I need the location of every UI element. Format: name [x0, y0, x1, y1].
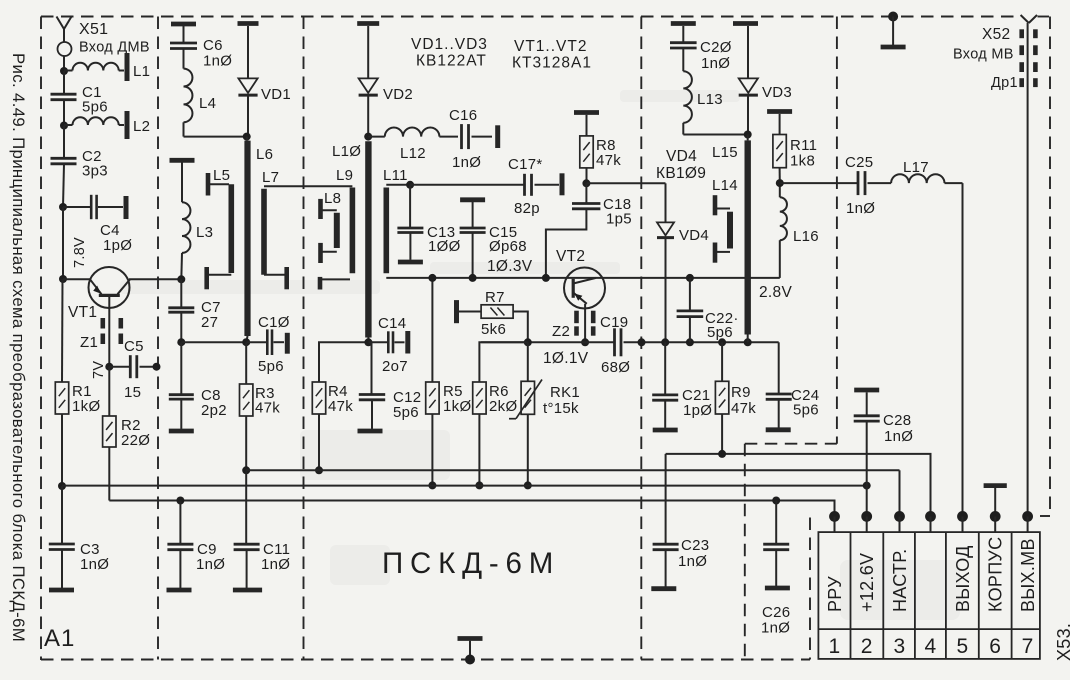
node C22 top: [686, 274, 694, 282]
wire VT1 base down: [108, 295, 110, 366]
svg-text:КОРПУС: КОРПУС: [986, 537, 1006, 612]
svg-text:Др1: Др1: [991, 75, 1018, 91]
svg-text:+12.6V: +12.6V: [857, 553, 877, 612]
capacitor C11: [234, 470, 260, 588]
svg-text:L12: L12: [400, 145, 426, 162]
line inductor L7: [261, 189, 267, 275]
svg-text:L11: L11: [383, 167, 408, 184]
svg-text:1p5: 1p5: [606, 211, 632, 228]
type label VD1..VD3 КВ122АТ: [411, 36, 488, 70]
chassis stub over L3: [170, 158, 195, 163]
wire stub to L9 foot: [320, 278, 350, 280]
node VD4 / C21: [661, 338, 669, 346]
node R9 top: [718, 338, 726, 346]
chassis stub over C6: [171, 22, 196, 27]
svg-text:2p2: 2p2: [201, 402, 227, 419]
wire L5 top tap: [208, 183, 229, 185]
capacitor C5: [109, 355, 156, 378]
pin 6 of X53: [986, 511, 1006, 658]
ground of C23: [651, 586, 676, 591]
line inductor L9: [350, 188, 356, 274]
node C9 top: [176, 497, 184, 505]
svg-text:R11: R11: [790, 137, 817, 154]
diode VD3: [739, 26, 758, 135]
svg-text:C19: C19: [600, 314, 628, 331]
svg-text:L7: L7: [262, 169, 279, 186]
line inductor L5: [229, 184, 235, 273]
ferrite bead Z1: [103, 318, 121, 344]
svg-text:5p6: 5p6: [258, 358, 284, 375]
ground at top border: [881, 12, 906, 48]
svg-text:2.8V: 2.8V: [759, 284, 792, 301]
capacitor C9: [167, 501, 193, 589]
section divider (dashed) 1: [157, 17, 159, 660]
svg-text:1nØ: 1nØ: [452, 154, 481, 171]
svg-text:VD2: VD2: [383, 86, 413, 103]
resistor R11: [773, 114, 786, 183]
thick plate bar of C14: [405, 331, 410, 354]
ground of C11: [233, 588, 262, 593]
node at C4: [59, 203, 67, 211]
pin 4 of X53: [925, 511, 937, 658]
svg-text:1nØ: 1nØ: [678, 553, 707, 570]
diode VD4: [657, 222, 674, 342]
node C7 / C8 / wire to L6 foot: [177, 338, 185, 346]
svg-text:VD3: VD3: [762, 84, 792, 101]
wire L7 bottom tap: [264, 274, 286, 276]
capacitor C12: [359, 342, 385, 429]
node R3 / tuning bus: [242, 466, 250, 474]
node C15 / base wire: [469, 274, 477, 282]
stub bar of L14 top: [713, 195, 718, 215]
svg-text:C17*: C17*: [508, 156, 543, 173]
resistor R4: [312, 342, 368, 470]
node R1 / +12V bus: [58, 482, 66, 490]
capacitor C20: [670, 26, 697, 71]
node R6 / +12V bus: [475, 481, 483, 489]
svg-text:5p6: 5p6: [707, 324, 733, 341]
svg-text:RK1: RK1: [550, 384, 580, 401]
chassis stub over C20: [671, 21, 696, 26]
capacitor C17: [523, 174, 526, 196]
svg-text:7.8V: 7.8V: [72, 237, 88, 268]
node base / C5 / R2: [105, 363, 113, 371]
capacitor C7: [168, 279, 194, 342]
capacitor C19: [615, 328, 779, 356]
short-circuit bar of L2: [125, 111, 130, 139]
inductor L17: [891, 174, 962, 183]
diode VD1: [238, 26, 257, 137]
wire C13 node to C17: [410, 184, 524, 186]
thick plate bar of C17: [560, 173, 565, 195]
svg-text:X53.: X53.: [1054, 623, 1070, 661]
svg-text:1pØ: 1pØ: [683, 402, 712, 419]
capacitor C26: [763, 501, 789, 587]
section divider (dashed) 4 stepped: [745, 17, 837, 660]
svg-text:3p3: 3p3: [82, 163, 108, 180]
node VT1 emitter wire: [59, 275, 67, 283]
node L11 / C13 / C17 wire: [406, 181, 414, 189]
ground of C3: [49, 588, 74, 593]
svg-text:Øp68: Øp68: [489, 238, 527, 255]
output line wire: [666, 454, 931, 517]
svg-text:2kØ: 2kØ: [489, 398, 517, 415]
ferrite bead Z2: [577, 311, 594, 336]
capacitor C2: [51, 126, 77, 208]
svg-text:L16: L16: [793, 228, 819, 245]
node L10 foot / C12 / C14: [364, 338, 372, 346]
node VD3 / L13 / L15: [744, 131, 752, 139]
svg-text:R9: R9: [731, 384, 751, 401]
svg-text:4: 4: [925, 635, 937, 658]
svg-text:Z2: Z2: [552, 323, 570, 340]
svg-text:1nØ: 1nØ: [846, 200, 875, 217]
chassis stub over C28: [854, 388, 879, 393]
resistor R5: [426, 278, 439, 486]
svg-text:L15: L15: [712, 144, 738, 161]
resistor R2: [103, 367, 116, 501]
svg-text:15: 15: [124, 384, 141, 401]
capacitor C6: [170, 26, 197, 69]
chassis stub over VD1: [238, 21, 259, 26]
chassis stub over VD2: [357, 21, 379, 26]
wire X51 to L1 node: [63, 56, 65, 71]
stub bar of L8 bottom: [318, 243, 323, 263]
svg-text:L3: L3: [196, 224, 213, 241]
inductor L2: [64, 117, 124, 125]
svg-text:L1: L1: [133, 63, 150, 80]
svg-text:47k: 47k: [328, 398, 353, 415]
resistor R6: [473, 382, 486, 485]
svg-text:2o7: 2o7: [382, 358, 408, 375]
+12.6V bus: [62, 485, 867, 487]
svg-text:ВЫХ.МВ: ВЫХ.МВ: [1018, 538, 1038, 612]
svg-text:1: 1: [829, 635, 841, 658]
svg-text:22Ø: 22Ø: [121, 432, 150, 449]
svg-text:VD1: VD1: [261, 86, 291, 103]
inductor L12: [368, 128, 458, 137]
wire L17 to pin 5: [962, 183, 964, 516]
svg-text:L5: L5: [213, 167, 230, 184]
pin 2 of X53: [857, 511, 877, 658]
svg-text:1nØ: 1nØ: [196, 556, 225, 573]
chassis stub over pin 6: [984, 483, 1007, 488]
node VT2 emitter: [581, 338, 589, 346]
svg-text:1kØ: 1kØ: [72, 398, 100, 415]
capacitor C28: [854, 392, 880, 516]
resistor R1: [55, 279, 68, 486]
svg-text:VT2: VT2: [556, 248, 585, 265]
svg-text:L14: L14: [712, 177, 738, 194]
capacitor C18: [546, 183, 601, 278]
svg-text:Вход ДМВ: Вход ДМВ: [79, 40, 150, 56]
svg-text:1kØ: 1kØ: [443, 398, 471, 415]
wire R8 node to VD4: [586, 183, 665, 222]
type label VT1..VT2 КТ3128А1: [512, 38, 592, 72]
svg-text:C25: C25: [845, 154, 873, 171]
node R5 / +12V bus: [428, 481, 436, 489]
capacitor C14: [368, 331, 404, 353]
wire down to VT1 emitter node: [62, 207, 64, 279]
svg-text:РРУ: РРУ: [825, 576, 845, 612]
stub bar of L7 bottom: [284, 267, 289, 289]
svg-text:1ØØ: 1ØØ: [428, 238, 461, 255]
wire L14 bottom tap: [715, 251, 730, 253]
line inductor L10: [365, 141, 371, 337]
svg-text:L13: L13: [697, 91, 723, 108]
node VD1 / L4 / L6: [243, 133, 251, 141]
svg-text:R7: R7: [485, 289, 505, 306]
wire L7 top to L9 top: [264, 185, 352, 187]
svg-text:1nØ: 1nØ: [761, 620, 790, 637]
svg-text:1Ø.3V: 1Ø.3V: [487, 258, 533, 275]
ground of C8: [169, 429, 194, 434]
svg-text:7V: 7V: [91, 361, 107, 379]
pin 1 of X53: [825, 511, 845, 658]
thick plate bar of C4: [124, 196, 129, 219]
svg-text:КВ1Ø9: КВ1Ø9: [656, 165, 706, 182]
svg-text:47k: 47k: [731, 400, 756, 417]
ground of C24: [766, 427, 791, 432]
type label VD4 КВ109: [656, 148, 706, 182]
svg-text:VT1..VT2: VT1..VT2: [514, 38, 587, 55]
svg-text:C5: C5: [124, 338, 144, 355]
line inductor L14: [727, 212, 733, 249]
thick plate bar of C10: [285, 333, 290, 354]
transistor VT1: [63, 267, 181, 308]
stub bar of L8 top: [318, 199, 323, 219]
svg-text:82p: 82p: [514, 200, 540, 217]
chassis stub over VD3: [733, 21, 758, 26]
svg-text:1nØ: 1nØ: [261, 556, 290, 573]
antenna symbol at X52: [1021, 15, 1037, 23]
svg-text:A1: A1: [44, 625, 75, 652]
wire L11 top to C13 node: [386, 184, 410, 186]
stub bar of L5 bottom: [204, 267, 209, 289]
svg-text:КТ3128А1: КТ3128А1: [512, 55, 592, 72]
inductor L13: [683, 71, 747, 134]
capacitor C13: [397, 185, 423, 260]
node R9 / output line: [718, 450, 726, 458]
svg-text:L2: L2: [133, 118, 150, 135]
capacitor C25: [780, 171, 891, 195]
RRU bus: [109, 501, 834, 517]
resistor R3: [240, 342, 253, 470]
node on divider at C19 wire: [638, 338, 646, 346]
diode VD2: [359, 26, 378, 137]
resistor R7: [457, 300, 528, 342]
svg-text:47k: 47k: [255, 400, 280, 417]
svg-text:1Ø.1V: 1Ø.1V: [543, 350, 589, 367]
svg-text:3: 3: [894, 635, 906, 658]
node C28 / pin2: [863, 482, 871, 490]
node L15 foot: [744, 338, 752, 346]
node VD2 / L10 / L12: [364, 133, 372, 141]
svg-text:1pØ: 1pØ: [103, 237, 132, 254]
svg-text:C16: C16: [449, 107, 477, 124]
wire node to L10 / C14 node: [367, 338, 369, 343]
svg-text:X52: X52: [982, 26, 1010, 43]
wire L8 bottom tap: [321, 251, 337, 253]
capacitor C8: [169, 342, 194, 429]
line inductor L11: [383, 188, 389, 274]
wire R6 top elbow: [479, 342, 527, 382]
node C5 right: [153, 363, 161, 371]
svg-text:47k: 47k: [596, 152, 621, 169]
svg-text:L4: L4: [199, 95, 216, 112]
stub bar of L5 top: [206, 173, 211, 196]
wire L11 foot to VT2 base: [386, 277, 612, 279]
stub bar of L14 bottom: [713, 243, 718, 263]
node R8 / C18 / VD4 wire: [582, 179, 590, 187]
ground of C21: [653, 428, 678, 433]
svg-text:2: 2: [861, 635, 873, 658]
short-circuit bar of L1: [125, 53, 130, 81]
node RK1 / +12V bus: [524, 481, 532, 489]
capacitor C16: [462, 124, 493, 149]
wire L14 top tap: [715, 208, 730, 210]
capacitor C3: [49, 486, 75, 588]
svg-text:C28: C28: [883, 412, 911, 429]
chassis stub over C15: [460, 197, 485, 202]
ground of C9: [167, 588, 192, 593]
svg-text:5p6: 5p6: [82, 99, 108, 116]
section divider (dashed) 2: [303, 17, 305, 660]
svg-text:1nØ: 1nØ: [80, 556, 109, 573]
wire node to L6 foot: [181, 341, 246, 343]
capacitor C22: [677, 278, 704, 342]
ground at bottom border: [458, 639, 483, 665]
svg-text:ВЫХОД: ВЫХОД: [953, 545, 973, 612]
svg-text:VD1..VD3: VD1..VD3: [411, 36, 488, 53]
resistor R8: [580, 115, 593, 184]
svg-text:5k6: 5k6: [481, 321, 506, 338]
ground of C13: [398, 260, 423, 265]
capacitor C21: [652, 342, 678, 428]
svg-text:C14: C14: [378, 315, 406, 332]
wire pin 6 stub: [994, 488, 996, 517]
svg-text:L8: L8: [324, 190, 341, 207]
node C26 top: [772, 497, 780, 505]
svg-text:L1Ø: L1Ø: [332, 143, 361, 160]
node at L1 tap: [60, 67, 68, 75]
svg-text:X51: X51: [79, 21, 108, 38]
svg-text:Вход МВ: Вход МВ: [953, 47, 1014, 63]
wire C17 to stub: [535, 184, 560, 186]
wire L8 top tap: [321, 209, 337, 211]
wire VT2 collector to L16: [612, 240, 780, 278]
svg-text:C1Ø: C1Ø: [258, 314, 290, 331]
svg-text:5: 5: [957, 635, 969, 658]
ground of C26: [765, 586, 790, 591]
thermistor RK1: [509, 342, 542, 485]
svg-text:27: 27: [201, 314, 218, 331]
node C22 bottom: [686, 338, 694, 346]
svg-text:C26: C26: [762, 604, 790, 621]
line inductor L15: [745, 135, 751, 343]
antenna symbol at X51: [57, 17, 72, 43]
svg-text:5p6: 5p6: [393, 404, 419, 421]
svg-text:L9: L9: [336, 167, 353, 184]
node L6 foot / C10 / R3: [242, 338, 250, 346]
svg-text:C2Ø: C2Ø: [700, 39, 732, 56]
svg-text:C6: C6: [203, 37, 223, 54]
tuning voltage bus: [246, 470, 900, 516]
svg-text:68Ø: 68Ø: [601, 359, 630, 376]
pin 3 of X53: [890, 511, 910, 658]
wire X52 to pin 7: [1027, 23, 1029, 516]
node R4 / tuning bus: [315, 466, 323, 474]
stub bar at L9 foot: [318, 277, 323, 290]
svg-text:1nØ: 1nØ: [884, 428, 913, 445]
line inductor L6: [246, 137, 247, 343]
pin 5 of X53: [953, 511, 973, 658]
node C18 / base wire: [542, 274, 550, 282]
resistor R9: [715, 342, 728, 454]
connector area dashed border: [809, 518, 811, 660]
svg-text:t°15k: t°15k: [543, 400, 579, 417]
node R11 / L16 / C25: [776, 179, 784, 187]
svg-text:Рис. 4.49. Принципиальная схем: Рис. 4.49. Принципиальная схема преобраз…: [9, 53, 28, 642]
svg-text:КВ122АТ: КВ122АТ: [416, 53, 487, 70]
ground of C12: [358, 429, 383, 434]
transistor VT2: [564, 268, 605, 343]
node R7 / RK1 / emitter wire: [524, 338, 532, 346]
inductor L3: [181, 163, 190, 280]
svg-text:5p6: 5p6: [793, 402, 819, 419]
svg-text:НАСТР.: НАСТР.: [890, 549, 910, 612]
thick plate bar of C16: [495, 125, 500, 148]
svg-text:ПСКД-6М: ПСКД-6М: [382, 547, 560, 580]
svg-text:Z1: Z1: [80, 334, 98, 351]
capacitor C23: [653, 454, 679, 587]
pin 7 of X53: [1018, 511, 1038, 658]
section divider (dashed) 3: [640, 17, 642, 660]
capacitor C24: [766, 342, 792, 428]
svg-text:VT1: VT1: [68, 304, 97, 321]
inductor L4: [184, 69, 247, 137]
svg-text:1nØ: 1nØ: [701, 55, 730, 72]
capacitor C4: [63, 195, 123, 219]
capacitor C1: [51, 71, 77, 126]
inductor L16: [780, 183, 787, 240]
connector X53 table: [818, 532, 1040, 659]
capacitor C15: [460, 202, 486, 278]
wire L5 bottom tap: [207, 274, 232, 276]
svg-text:VD4: VD4: [666, 148, 697, 165]
svg-text:6: 6: [989, 635, 1001, 658]
svg-text:1nØ: 1nØ: [203, 53, 232, 70]
chassis stub over R11: [767, 109, 792, 114]
svg-text:L6: L6: [256, 146, 273, 163]
svg-text:1k8: 1k8: [790, 153, 815, 170]
svg-text:L17: L17: [903, 159, 929, 176]
svg-text:VD4: VD4: [679, 227, 709, 244]
choke Dr1 dashed bars: [1022, 29, 1036, 87]
node VT1 collector / L3 / C7: [177, 275, 185, 283]
emitter node wire left: [481, 341, 613, 343]
chassis stub over R8: [574, 110, 599, 115]
capacitor C10: [246, 329, 284, 355]
node at L2 tap: [60, 122, 68, 130]
inductor L1: [64, 63, 124, 71]
connector X51: [58, 42, 72, 56]
svg-text:7: 7: [1022, 635, 1034, 658]
node R5 / base wire: [428, 274, 436, 282]
line inductor L8: [334, 213, 340, 248]
svg-text:C23: C23: [681, 537, 709, 554]
